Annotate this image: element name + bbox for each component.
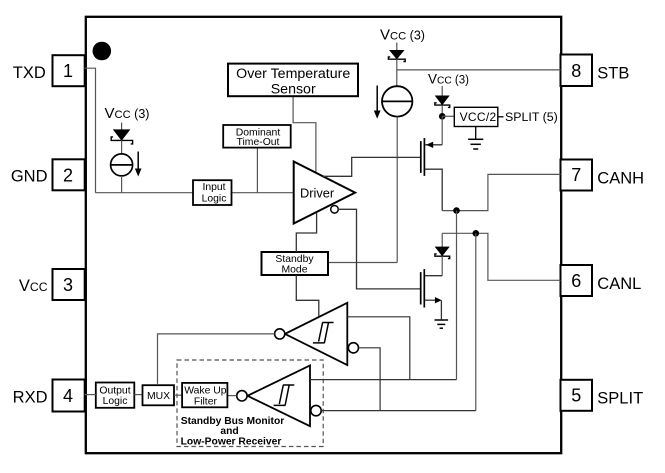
pin 4 box xyxy=(53,380,85,412)
arrow I2 direction xyxy=(376,86,378,113)
pin 1 box xyxy=(53,55,85,86)
pin 1 marker dot xyxy=(93,42,112,61)
diode D1 (left bias) xyxy=(113,130,129,141)
svg-text:2: 2 xyxy=(63,165,73,185)
wire RX1 CANL input xyxy=(359,348,381,411)
node RX2 inverting bubble xyxy=(311,405,321,415)
svg-text:Mode: Mode xyxy=(282,265,308,276)
node driver output bubble xyxy=(331,206,339,214)
svg-text:Over Temperature: Over Temperature xyxy=(236,66,350,82)
ground below M2 xyxy=(435,319,449,321)
wire node to VCC/2 block xyxy=(442,115,454,117)
M1 source xyxy=(425,169,442,210)
wire D4 to M2 drain xyxy=(441,256,443,276)
wire pin 4 to Output Logic xyxy=(85,394,96,396)
svg-text:Driver: Driver xyxy=(300,186,335,201)
pin 7 box xyxy=(561,160,593,191)
wire CANH net to pin 7 xyxy=(442,174,560,210)
wire MUX to Wake Up Filter xyxy=(174,394,182,396)
comparator RX2 (low-power receiver) xyxy=(248,365,311,426)
node CANL sense junction xyxy=(473,230,480,237)
transistor M1 (CANH driver) xyxy=(420,141,422,173)
wire D2 to current source I2 xyxy=(396,59,398,86)
wire D3 to node xyxy=(441,105,443,116)
block VCC/2 xyxy=(454,107,498,126)
svg-text:1: 1 xyxy=(63,61,73,81)
svg-text:3: 3 xyxy=(63,275,73,295)
IC body border xyxy=(86,17,561,453)
block MUX xyxy=(143,385,175,405)
M2 source with arrow xyxy=(425,299,436,301)
hysteresis glyph RX1 xyxy=(313,323,334,343)
wire Vcc stub to diode D3 xyxy=(441,86,443,97)
pin 5 box xyxy=(561,380,593,411)
svg-text:Time-Out: Time-Out xyxy=(237,137,280,148)
M1 drain xyxy=(425,144,442,146)
block Over Temperature Sensor xyxy=(228,64,358,97)
current source I1 xyxy=(111,154,133,176)
svg-text:5: 5 xyxy=(571,385,581,405)
svg-text:7: 7 xyxy=(571,165,581,185)
arrow I1 direction xyxy=(137,152,139,171)
current source I2 xyxy=(382,86,412,116)
ground below VCC/2 xyxy=(475,127,477,140)
wire TXD pin1 to input bus xyxy=(85,68,96,193)
svg-text:MUX: MUX xyxy=(147,391,170,402)
wire I1 to input bus xyxy=(121,176,123,193)
node RX1 output bubble xyxy=(275,329,285,339)
pin 8 box xyxy=(561,55,593,87)
op-amp Driver xyxy=(294,162,355,224)
wire standby mode to I2 net xyxy=(328,262,397,264)
wire Vcc stub to diode D2 xyxy=(396,43,398,52)
svg-text:VCC: VCC xyxy=(19,277,48,295)
svg-text:8: 8 xyxy=(571,61,581,81)
svg-text:Wake Up: Wake Up xyxy=(184,385,227,396)
svg-text:CANL: CANL xyxy=(597,275,641,293)
comparator RX1 (main receiver) xyxy=(285,303,347,365)
wire Dominant Time-Out drop xyxy=(256,148,258,193)
wire Over Temperature Sensor to Driver xyxy=(293,97,316,173)
transistor M2 (CANL driver) xyxy=(420,272,422,304)
svg-text:6: 6 xyxy=(571,271,581,291)
block Input Logic xyxy=(193,180,232,205)
wire RX2 CANL input xyxy=(321,410,476,412)
svg-text:Output: Output xyxy=(99,385,130,396)
wire D1 to current source I1 xyxy=(121,140,123,154)
block Standby Mode xyxy=(262,252,329,275)
wire RX2 output to Wake Up Filter xyxy=(227,395,236,397)
svg-text:Logic: Logic xyxy=(202,193,227,204)
hysteresis glyph RX2 xyxy=(274,385,295,405)
wire driver bottom slope to Standby Mode xyxy=(296,213,316,253)
M2 drain xyxy=(425,275,442,277)
wire RX1 output to MUX xyxy=(158,334,275,384)
pin 6 box xyxy=(561,265,593,296)
svg-text:SPLIT (5): SPLIT (5) xyxy=(505,110,558,124)
wire Input Logic to Driver xyxy=(232,192,294,194)
wire RX1 CANH input xyxy=(347,317,410,380)
wire input bus to Input Logic xyxy=(96,192,194,194)
wire Output Logic to MUX xyxy=(134,394,142,396)
block Output Logic xyxy=(96,383,135,408)
svg-text:VCC/2: VCC/2 xyxy=(460,110,497,124)
node RX1 inverting bubble xyxy=(348,343,358,353)
svg-text:RXD: RXD xyxy=(13,388,48,406)
node D3 junction xyxy=(439,113,446,120)
wire VCC/2 to SPLIT label xyxy=(498,116,504,118)
svg-text:Sensor: Sensor xyxy=(271,81,316,97)
wire CANH sense down to receivers xyxy=(456,211,458,380)
svg-text:4: 4 xyxy=(63,386,73,406)
block Wake Up Filter xyxy=(182,383,227,407)
svg-text:SPLIT: SPLIT xyxy=(597,389,643,407)
svg-text:Filter: Filter xyxy=(194,396,218,407)
wire driver bubble to M2 gate xyxy=(338,209,420,289)
wire CANL net to pin 6 xyxy=(442,233,560,280)
diode D3 (SPLIT bias) xyxy=(435,96,449,105)
svg-text:CANH: CANH xyxy=(597,170,644,188)
wire driver top slope to M1 gate xyxy=(323,157,420,176)
block Dominant Time-Out xyxy=(223,125,291,148)
pin 2 box xyxy=(53,159,85,190)
wire node down to M1 drain xyxy=(441,116,443,145)
svg-text:Low-Power Receiver: Low-Power Receiver xyxy=(181,436,282,447)
pin 3 box xyxy=(53,269,85,300)
wire CANL sense down to receivers xyxy=(475,233,477,410)
svg-text:Input: Input xyxy=(202,182,225,193)
svg-text:GND: GND xyxy=(11,167,48,185)
wire Standby Mode to receiver enable xyxy=(296,275,319,317)
svg-text:Logic: Logic xyxy=(103,396,128,407)
wire Vcc stub to diode D1 xyxy=(121,123,123,131)
svg-text:Standby: Standby xyxy=(275,254,314,265)
node RX2 output bubble xyxy=(237,391,247,401)
wire I2 down to standby net xyxy=(396,117,398,263)
diode D2 (STB bias) xyxy=(390,50,404,59)
wire STB node to pin 8 xyxy=(397,69,561,71)
svg-text:TXD: TXD xyxy=(13,64,46,82)
svg-text:STB: STB xyxy=(597,65,629,83)
dashed box standby bus monitor xyxy=(177,360,323,447)
node CANH sense junction xyxy=(453,207,460,214)
diode D4 (CANL) xyxy=(441,233,443,247)
wire RX2 CANH input xyxy=(310,379,457,381)
